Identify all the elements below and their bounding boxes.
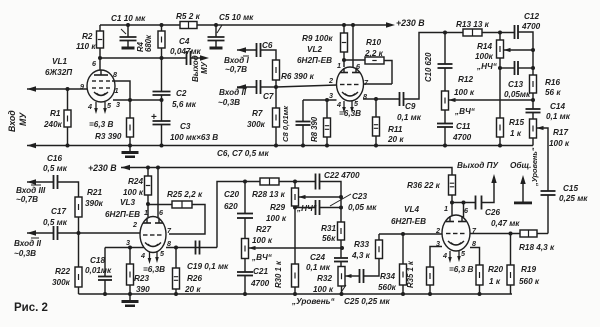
svg-text:Вход II: Вход II <box>14 239 42 248</box>
svg-text:R19: R19 <box>521 265 536 274</box>
svg-text:R36 22 к: R36 22 к <box>407 181 441 190</box>
svg-text:R26: R26 <box>187 274 202 283</box>
svg-text:C26: C26 <box>485 208 500 217</box>
svg-text:R28 13 к: R28 13 к <box>252 190 286 199</box>
svg-text:C4: C4 <box>179 37 190 46</box>
svg-text:C19 0,1 мк: C19 0,1 мк <box>187 262 229 271</box>
svg-text:100 к: 100 к <box>549 139 570 148</box>
svg-text:390к: 390к <box>85 199 104 208</box>
svg-text:0,5 мк: 0,5 мк <box>43 218 68 227</box>
svg-text:1: 1 <box>144 208 148 217</box>
svg-text:100к: 100к <box>475 52 494 61</box>
svg-text:R14: R14 <box>477 42 492 51</box>
svg-text:R1: R1 <box>50 109 61 118</box>
svg-text:560 к: 560 к <box>519 277 540 286</box>
svg-text:0,05 мк: 0,05 мк <box>348 203 377 212</box>
svg-text:C24: C24 <box>310 253 325 262</box>
svg-text:R25 2,2 к: R25 2,2 к <box>167 190 203 199</box>
svg-text:C22 4700: C22 4700 <box>324 171 360 180</box>
svg-text:„ВЧ“: „ВЧ“ <box>454 107 476 116</box>
svg-text:~0,3В: ~0,3В <box>14 249 36 258</box>
svg-text:C25 0,25 мк: C25 0,25 мк <box>344 297 391 306</box>
svg-text:МУ: МУ <box>200 61 209 74</box>
svg-text:100 к: 100 к <box>123 188 144 197</box>
svg-text:R13 13 к: R13 13 к <box>456 20 490 29</box>
svg-text:R7: R7 <box>252 109 263 118</box>
svg-text:0,5 мк: 0,5 мк <box>43 164 68 173</box>
svg-text:Выход ПУ: Выход ПУ <box>457 161 499 170</box>
svg-text:0,047мк: 0,047мк <box>170 47 202 56</box>
svg-text:R11: R11 <box>388 125 403 134</box>
svg-text:R29: R29 <box>270 203 285 212</box>
svg-text:C16: C16 <box>47 154 62 163</box>
svg-text:C17: C17 <box>51 207 66 216</box>
svg-text:0,1 мк: 0,1 мк <box>397 113 422 122</box>
svg-text:Вход: Вход <box>7 110 17 132</box>
svg-text:8: 8 <box>472 239 476 248</box>
svg-text:4: 4 <box>336 100 341 109</box>
svg-text:С8 0,01мк: С8 0,01мк <box>281 105 290 142</box>
svg-text:R18 4,3 к: R18 4,3 к <box>519 243 555 252</box>
svg-text:R9 100к: R9 100к <box>302 34 333 43</box>
svg-text:0,01мк: 0,01мк <box>85 266 112 275</box>
svg-text:390: 390 <box>136 285 150 294</box>
svg-text:R12: R12 <box>458 75 473 84</box>
svg-text:300к: 300к <box>247 120 266 129</box>
svg-text:56 к: 56 к <box>545 88 561 97</box>
svg-text:3: 3 <box>126 238 130 247</box>
svg-text:4700: 4700 <box>452 133 472 142</box>
svg-text:C18: C18 <box>90 256 105 265</box>
svg-text:+230 В: +230 В <box>88 163 117 173</box>
svg-text:2: 2 <box>435 226 440 235</box>
svg-text:100 к: 100 к <box>252 236 273 245</box>
svg-text:R20: R20 <box>488 265 503 274</box>
svg-text:R17: R17 <box>553 128 568 137</box>
svg-text:~0,7В: ~0,7В <box>225 65 247 74</box>
svg-text:2: 2 <box>328 76 333 85</box>
svg-text:1: 1 <box>444 204 448 213</box>
svg-text:VL1: VL1 <box>52 57 67 66</box>
svg-text:„НЧ“: „НЧ“ <box>476 62 498 71</box>
svg-text:100 мк×63 В: 100 мк×63 В <box>170 133 218 142</box>
svg-text:4: 4 <box>140 251 145 260</box>
svg-text:100 к: 100 к <box>454 88 475 97</box>
svg-text:R5 2 к: R5 2 к <box>176 12 201 21</box>
svg-text:0,47 мк: 0,47 мк <box>491 219 520 228</box>
svg-text:R24: R24 <box>128 177 143 186</box>
svg-text:0,1 мк: 0,1 мк <box>306 263 331 272</box>
svg-text:560к: 560к <box>378 283 397 292</box>
svg-text:6Ж32П: 6Ж32П <box>45 68 73 77</box>
svg-text:2: 2 <box>132 220 137 229</box>
svg-text:6Н2П-ЕВ: 6Н2П-ЕВ <box>105 210 140 219</box>
svg-text:„Уровень“: „Уровень“ <box>291 297 336 306</box>
svg-text:6Н2П-ЕВ: 6Н2П-ЕВ <box>297 56 332 65</box>
svg-text:C21: C21 <box>253 267 268 276</box>
svg-text:Вход I: Вход I <box>224 56 249 65</box>
svg-text:4700: 4700 <box>521 22 541 31</box>
svg-text:Вход II: Вход II <box>219 88 247 97</box>
svg-text:R23: R23 <box>134 274 149 283</box>
svg-text:1: 1 <box>337 61 341 70</box>
svg-text:C10 620: C10 620 <box>424 52 433 82</box>
svg-text:1: 1 <box>115 86 119 95</box>
svg-text:5,6 мк: 5,6 мк <box>172 100 197 109</box>
svg-text:4,3 к: 4,3 к <box>351 251 371 260</box>
svg-text:R8 390: R8 390 <box>310 116 319 142</box>
svg-text:C23: C23 <box>352 192 367 201</box>
svg-text:VL4: VL4 <box>404 205 419 214</box>
svg-text:R27: R27 <box>256 225 271 234</box>
svg-text:R35 1 к: R35 1 к <box>406 260 415 288</box>
svg-text:C3: C3 <box>180 122 191 131</box>
svg-text:R32: R32 <box>317 274 332 283</box>
svg-text:3: 3 <box>436 239 440 248</box>
svg-text:„Уровень“: „Уровень“ <box>530 147 539 187</box>
svg-text:„ВЧ“: „ВЧ“ <box>251 253 273 262</box>
svg-text:8: 8 <box>113 70 117 79</box>
svg-text:100 к: 100 к <box>313 285 334 294</box>
svg-text:8: 8 <box>363 92 367 101</box>
svg-text:0,1 мк: 0,1 мк <box>546 112 571 121</box>
svg-text:Общ.: Общ. <box>510 160 531 170</box>
svg-text:56к: 56к <box>322 234 336 243</box>
svg-text:C20: C20 <box>224 190 239 199</box>
svg-text:=6,3 В: =6,3 В <box>89 120 113 129</box>
svg-text:0,25 мк: 0,25 мк <box>559 194 588 203</box>
svg-text:=6,3В: =6,3В <box>339 109 361 118</box>
svg-text:1 к: 1 к <box>489 277 501 286</box>
svg-text:8: 8 <box>167 239 171 248</box>
svg-text:4700: 4700 <box>250 279 270 288</box>
svg-text:„НЧ“: „НЧ“ <box>296 204 318 213</box>
svg-text:R33: R33 <box>354 240 369 249</box>
svg-text:20 к: 20 к <box>184 285 201 294</box>
svg-text:680к: 680к <box>144 34 153 52</box>
svg-text:~0,7В: ~0,7В <box>16 195 38 204</box>
svg-text:300к: 300к <box>52 278 71 287</box>
svg-text:9: 9 <box>80 82 84 91</box>
svg-text:3: 3 <box>329 91 333 100</box>
svg-text:C1 10 мк: C1 10 мк <box>111 14 146 23</box>
svg-text:R22: R22 <box>55 267 70 276</box>
svg-text:R10: R10 <box>366 38 381 47</box>
svg-text:R34: R34 <box>380 272 395 281</box>
svg-text:R3 390: R3 390 <box>95 132 122 141</box>
svg-text:C6, C7 0,5 мк: C6, C7 0,5 мк <box>217 149 269 158</box>
svg-text:240к: 240к <box>43 120 63 129</box>
svg-text:VL2: VL2 <box>307 45 322 54</box>
svg-text:R21: R21 <box>87 188 102 197</box>
svg-text:C2: C2 <box>176 89 187 98</box>
svg-text:+230 В: +230 В <box>396 18 425 28</box>
svg-text:Выход: Выход <box>191 55 200 82</box>
svg-text:=6,3 В: =6,3 В <box>449 265 473 274</box>
svg-text:4: 4 <box>442 251 447 260</box>
svg-text:100 к: 100 к <box>266 214 287 223</box>
svg-text:4: 4 <box>87 102 92 111</box>
svg-text:C11: C11 <box>456 122 471 131</box>
svg-text:R15: R15 <box>509 118 524 127</box>
svg-text:110 к: 110 к <box>76 42 96 51</box>
svg-text:C15: C15 <box>563 184 578 193</box>
svg-text:6Н2П-ЕВ: 6Н2П-ЕВ <box>391 217 426 226</box>
svg-text:20 к: 20 к <box>387 135 404 144</box>
svg-text:C13: C13 <box>508 80 523 89</box>
svg-text:C9: C9 <box>405 102 416 111</box>
svg-text:C6: C6 <box>262 41 273 50</box>
svg-text:R6 390 к: R6 390 к <box>281 72 315 81</box>
svg-text:1 к: 1 к <box>510 129 522 138</box>
svg-text:R16: R16 <box>545 78 560 87</box>
svg-text:R2: R2 <box>82 32 93 41</box>
svg-text:620: 620 <box>224 202 238 211</box>
svg-text:C12: C12 <box>524 12 539 21</box>
svg-text:VL3: VL3 <box>120 198 135 207</box>
svg-text:=6,3В: =6,3В <box>143 265 165 274</box>
svg-text:3: 3 <box>116 100 120 109</box>
svg-text:C14: C14 <box>550 102 565 111</box>
svg-text:2,2 к: 2,2 к <box>364 49 384 58</box>
svg-text:~0,3В: ~0,3В <box>218 98 240 107</box>
svg-text:R31: R31 <box>321 224 336 233</box>
svg-text:Рис. 2: Рис. 2 <box>14 302 48 314</box>
svg-text:Вход III: Вход III <box>16 186 46 195</box>
svg-text:МУ: МУ <box>18 112 28 126</box>
svg-text:C5 10 мк: C5 10 мк <box>219 13 254 22</box>
svg-text:C7: C7 <box>263 92 274 101</box>
svg-text:0,05мк: 0,05мк <box>504 90 531 99</box>
svg-text:R30 1 к: R30 1 к <box>274 260 283 288</box>
